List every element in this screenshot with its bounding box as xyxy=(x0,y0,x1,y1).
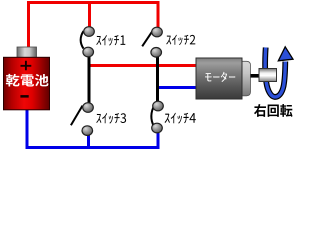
switch S1 top terminal xyxy=(84,27,95,37)
wire: red drop to switch 2 xyxy=(157,1,160,28)
motor pulley on shaft xyxy=(259,69,277,82)
switch S1 bottom terminal xyxy=(83,47,94,57)
motor M1 end cap xyxy=(242,61,251,96)
battery label 乾電池 xyxy=(6,74,49,87)
motor M1 body xyxy=(196,58,242,99)
switch S1 label スイッチ1 xyxy=(96,35,125,46)
battery B1 positive cap xyxy=(17,47,37,58)
wire: red feed to motor + xyxy=(88,64,197,67)
label 右回転 xyxy=(254,104,293,117)
switch S3 top terminal xyxy=(83,103,94,113)
wire: red top bus from battery + across top xyxy=(29,3,160,49)
battery minus mark xyxy=(20,95,28,98)
wire: blue bottom bus from battery - xyxy=(27,109,158,148)
wire: blue drop below switch 3 xyxy=(87,134,90,147)
wire: black link switch1 to switch3 xyxy=(88,55,91,105)
switch S2 open lever xyxy=(142,31,153,47)
switch S2 bottom terminal xyxy=(151,48,162,58)
switch S3 bottom terminal xyxy=(82,126,93,136)
wire: black link switch2 to switch4 xyxy=(156,55,159,105)
rotation arrow (right rotation) xyxy=(265,47,293,97)
switch S4 bottom terminal xyxy=(152,123,163,133)
switch S3 label スイッチ3 xyxy=(96,113,126,124)
switch S4 label スイッチ4 xyxy=(165,113,196,124)
motor label モーター xyxy=(205,72,235,82)
switch S3 open lever xyxy=(71,106,83,126)
motor shaft xyxy=(251,74,261,78)
switch S4 top terminal xyxy=(153,101,164,111)
switch S2 top terminal xyxy=(152,27,163,37)
switch S1 closed lever xyxy=(81,31,84,49)
switch S4 closed lever xyxy=(151,104,154,126)
switch S2 label スイッチ2 xyxy=(166,35,195,46)
wire: blue feed to motor - xyxy=(156,86,197,89)
battery B1 body xyxy=(4,57,50,110)
wire: red drop to switch 1 xyxy=(88,1,91,28)
battery plus mark xyxy=(21,61,32,71)
